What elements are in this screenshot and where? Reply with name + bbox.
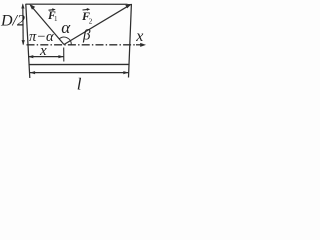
dimension D/2 (vertical double-arrow line) — [21, 3, 25, 45]
dimension x (horizontal double-arrow line with vertex tick) — [28, 48, 64, 62]
dimension l (horizontal double-arrow line) — [30, 71, 129, 74]
angle arc (alpha and beta) at vertex — [59, 37, 71, 45]
vector F2 (from vertex up-right, arrowhead at top) — [64, 4, 132, 45]
right edge — [129, 4, 132, 78]
svg-text:x: x — [135, 28, 143, 45]
label F2 — [81, 8, 93, 26]
left edge — [26, 4, 30, 78]
svg-text:α: α — [61, 18, 71, 37]
background — [0, 0, 152, 99]
label F1 — [47, 8, 58, 23]
svg-text:2: 2 — [89, 18, 93, 26]
top edge — [26, 3, 132, 5]
svg-text:β: β — [82, 27, 91, 43]
vector F1 (from vertex up-left, arrowhead at top) — [29, 4, 64, 45]
svg-text:x: x — [39, 43, 47, 59]
svg-text:l: l — [77, 74, 82, 93]
x-axis (dash-dot centerline with arrowhead) — [27, 43, 147, 47]
bottom edge — [29, 63, 129, 65]
svg-text:1: 1 — [54, 15, 58, 23]
svg-text:D/2: D/2 — [0, 12, 25, 29]
